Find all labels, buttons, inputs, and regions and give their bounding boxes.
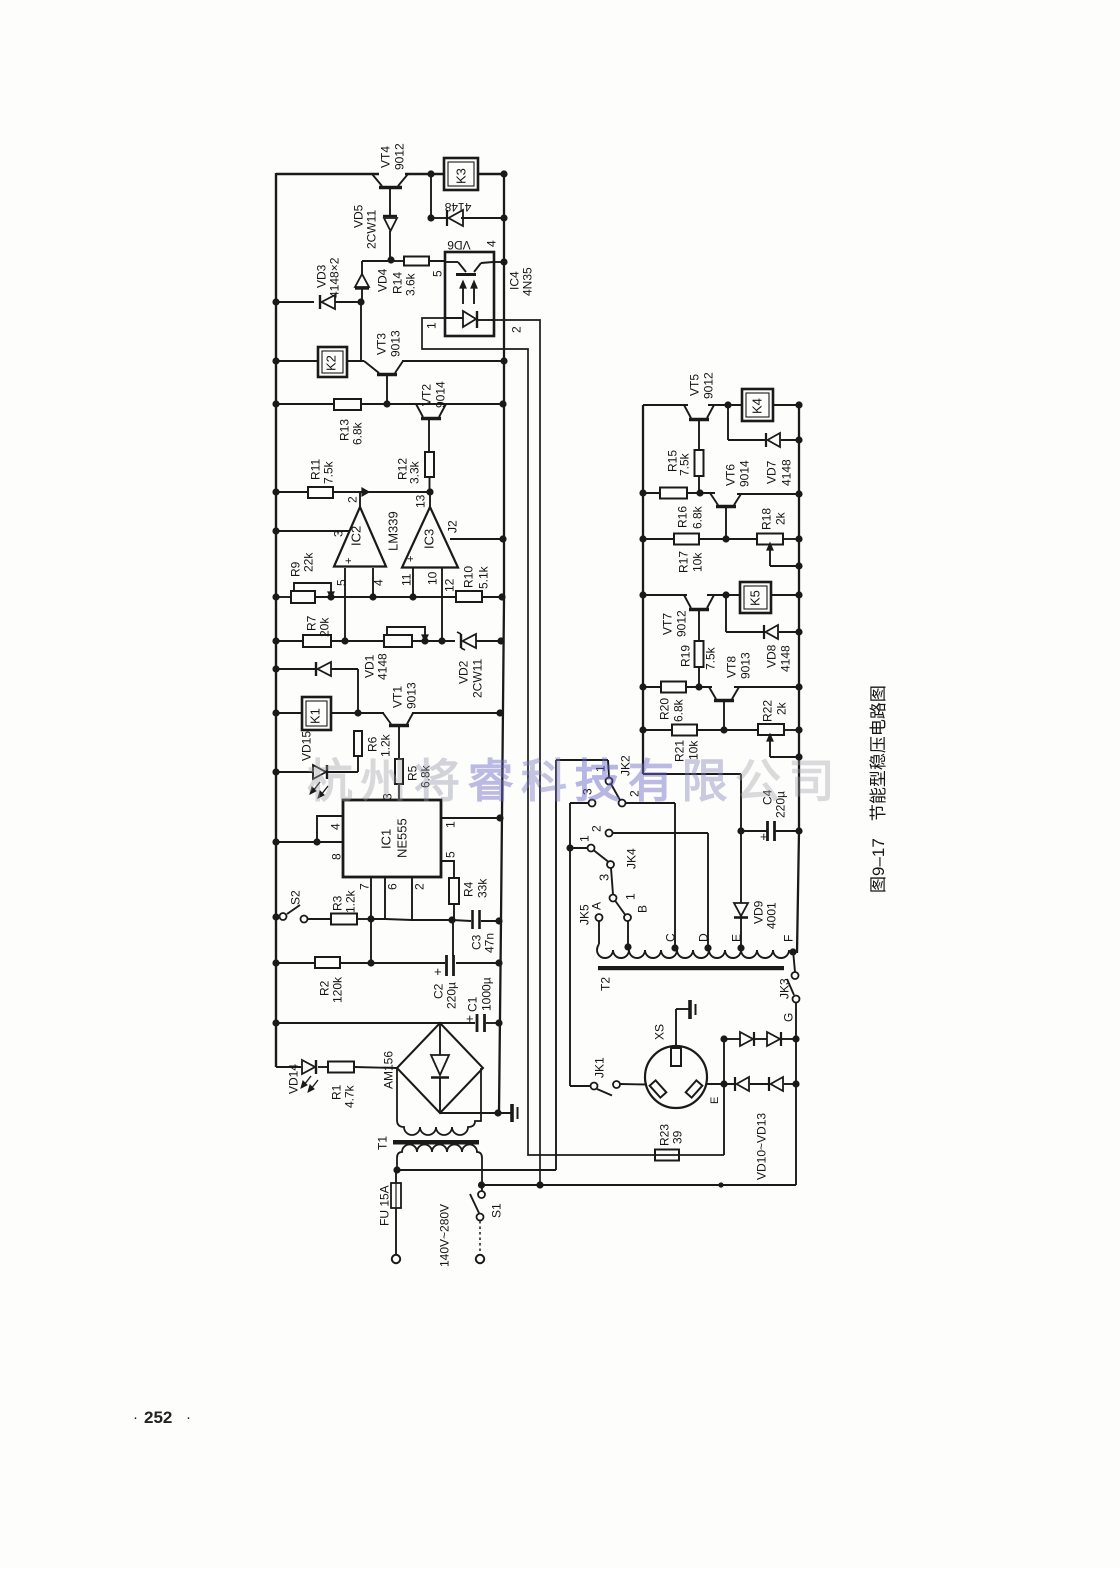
wire IC1 pin6 [371, 877, 399, 919]
resistor R16 [660, 488, 704, 530]
wire IC1 pin8 rail [276, 841, 343, 843]
svg-text:1: 1 [623, 893, 637, 900]
label R9 22k [288, 552, 315, 577]
diode VD12 [735, 1077, 749, 1091]
svg-text:39: 39 [670, 1130, 684, 1144]
node IC4 pin4 [500, 258, 507, 265]
node R9 left [272, 593, 279, 600]
svg-text:R6: R6 [365, 736, 379, 752]
label JK3 [777, 978, 791, 999]
label VT8 [724, 652, 752, 679]
transistor VT7 [684, 595, 714, 641]
svg-text:2: 2 [412, 883, 426, 890]
wire R13 rail [276, 403, 504, 405]
node K1 right end [496, 709, 503, 716]
svg-text:R1: R1 [329, 1084, 343, 1100]
wire R20 rail [643, 686, 799, 688]
diode VD10 [740, 1032, 754, 1046]
svg-text:VT8: VT8 [724, 656, 738, 678]
svg-text:IC2: IC2 [349, 526, 364, 546]
watermark [307, 755, 835, 807]
node VT7-K5 [722, 591, 729, 598]
node JK4-1 join [566, 844, 573, 851]
wire pin7 drop [370, 919, 372, 963]
node pin8 left [272, 838, 279, 845]
svg-text:9012: 9012 [701, 372, 715, 399]
svg-text:R13: R13 [337, 419, 351, 441]
svg-text:IC1: IC1 [379, 829, 394, 849]
node R19 bottom [695, 683, 702, 690]
svg-text:IC3: IC3 [422, 529, 437, 549]
page number [133, 1408, 191, 1427]
switch JK2 [570, 760, 626, 807]
label socket pin [709, 1097, 721, 1104]
pin 1 of JK2 [593, 765, 607, 772]
wire lower diode row [706, 1083, 796, 1085]
pin 3 of JK2 [580, 788, 594, 795]
resistor R19 [678, 641, 717, 687]
node K3 right corner [500, 170, 507, 177]
wire VD7 branch [728, 405, 799, 440]
svg-text:R14: R14 [390, 272, 404, 294]
wire JK2-2 to tap C [626, 803, 676, 948]
node C4 left [737, 827, 744, 834]
wire R7 rail [276, 640, 501, 642]
svg-text:9014: 9014 [433, 381, 447, 408]
terminal mains L [392, 1255, 400, 1263]
svg-text:VT5: VT5 [687, 374, 701, 396]
node S2 left [272, 913, 279, 920]
svg-text:K2: K2 [324, 355, 339, 371]
node S1 top [478, 1181, 485, 1188]
label VD14 [286, 1064, 300, 1094]
pin 1 of JK5 [623, 893, 637, 900]
svg-text:R18: R18 [759, 508, 773, 530]
label JK4 [624, 848, 638, 869]
svg-text:R11: R11 [308, 459, 322, 480]
svg-text:4148: 4148 [778, 645, 792, 672]
node T2 tap E [729, 934, 744, 952]
svg-text:VD5: VD5 [351, 204, 365, 228]
svg-text:3: 3 [597, 874, 612, 881]
pin A of JK5 [589, 902, 603, 910]
node pin4 join [313, 838, 320, 845]
svg-text:4148: 4148 [779, 459, 793, 486]
bridge rectifier AM156 [381, 1023, 483, 1113]
wire IC3 pin10 [425, 568, 442, 641]
node VD7 right [795, 436, 802, 443]
svg-text:220µ: 220µ [444, 982, 458, 1009]
svg-text:VD7: VD7 [764, 460, 778, 484]
svg-text:·: · [186, 1409, 191, 1426]
svg-text:睿: 睿 [468, 755, 515, 807]
node C1 left [272, 1019, 279, 1026]
svg-text:4.7k: 4.7k [342, 1084, 356, 1108]
diode VD1 [316, 662, 331, 676]
wire R21 rail [643, 729, 799, 731]
node upper row left [720, 1035, 727, 1042]
svg-text:VD4: VD4 [375, 268, 389, 292]
svg-text:6.8k: 6.8k [671, 698, 685, 722]
pin 1 of JK4 [577, 835, 591, 842]
node VD1 left [272, 665, 279, 672]
svg-text:7: 7 [357, 883, 371, 890]
svg-text:B: B [635, 905, 649, 913]
svg-text:F: F [781, 935, 795, 942]
svg-text:IC4: IC4 [507, 271, 521, 290]
svg-text:3: 3 [331, 530, 345, 537]
label VD5 2CW11 [351, 204, 378, 249]
svg-text:10k: 10k [690, 552, 704, 572]
wire IC1 pin7 [357, 877, 371, 919]
pin 8 of IC1 [329, 853, 343, 860]
svg-text:1.2k: 1.2k [343, 889, 357, 913]
node R17 left [639, 535, 646, 542]
resistor R20 [657, 682, 686, 723]
svg-text:1.2k: 1.2k [378, 733, 392, 757]
capacitor C1 [465, 977, 493, 1032]
wire pin2 long link [494, 320, 540, 1185]
node VD6 left [427, 214, 434, 221]
svg-text:科: 科 [521, 755, 567, 807]
resistor R4 [449, 878, 489, 920]
svg-text:技: 技 [575, 755, 621, 807]
transistor VT4 [372, 174, 408, 216]
node R13 rail right [499, 400, 506, 407]
IC NE555 IC1 [343, 800, 441, 877]
zener VD2 [457, 632, 479, 650]
wire IC2 pin3 rail [272, 527, 349, 534]
svg-text:2CW11: 2CW11 [470, 659, 484, 698]
svg-text:+: + [466, 1011, 474, 1026]
svg-text:R16: R16 [675, 506, 689, 528]
socket XS [645, 1046, 707, 1108]
transistor VT2 [416, 404, 446, 452]
node pin1 right [496, 814, 503, 821]
svg-text:13: 13 [413, 494, 427, 508]
wire right top rail [643, 404, 799, 406]
svg-text:R7: R7 [304, 615, 318, 631]
wire R9 rail [276, 596, 502, 598]
pin 2 of IC4 [509, 326, 523, 333]
label VD4 [375, 268, 389, 292]
node R18 wiper right [795, 562, 802, 569]
svg-text:R19: R19 [678, 645, 692, 667]
svg-text:+: + [405, 556, 417, 562]
svg-text:9012: 9012 [674, 610, 688, 637]
svg-text:VT7: VT7 [660, 613, 674, 635]
resistor R14 [391, 257, 446, 266]
svg-text:T1: T1 [375, 1136, 389, 1150]
svg-text:R22: R22 [760, 700, 774, 722]
node R21 left [639, 726, 646, 733]
fuse FU [391, 1170, 401, 1255]
resistor R2 [315, 957, 344, 1003]
switch JK1 [570, 1081, 647, 1096]
svg-text:VD10~VD13: VD10~VD13 [754, 1113, 768, 1180]
node bottom bus x540 [536, 1181, 543, 1188]
resistor R3 [308, 889, 371, 924]
node R7 left [272, 637, 279, 644]
label IC4 4N35 [507, 267, 534, 296]
node K4 right [795, 401, 802, 408]
svg-text:限: 限 [682, 755, 728, 807]
label JK1 [592, 1057, 606, 1078]
node VD3 left [272, 298, 279, 305]
svg-text:2k: 2k [773, 511, 787, 525]
pin 2 of IC2 [345, 496, 359, 503]
label T1 [375, 1136, 389, 1150]
wire diode rows link [723, 1039, 725, 1084]
node R12 bottom [426, 488, 433, 495]
svg-text:252: 252 [144, 1408, 172, 1427]
label JK5 [577, 904, 591, 925]
node G label [781, 1013, 795, 1022]
svg-text:9013: 9013 [388, 330, 402, 357]
wire IC2 pin5 [334, 568, 348, 641]
node R22 right [795, 726, 802, 733]
wire C4 feed [643, 774, 741, 903]
wire IC1 pin1 [441, 818, 500, 828]
diode VD9 [734, 903, 748, 948]
ground [512, 1104, 518, 1122]
IC4 LED [446, 311, 493, 328]
potentiometer R8 [384, 627, 428, 647]
ground XS [690, 1000, 696, 1019]
svg-text:VT6: VT6 [723, 464, 737, 486]
optocoupler IC4 box [445, 252, 494, 336]
label J2 [445, 520, 459, 533]
node VD3 junction [357, 298, 364, 305]
caption figure title [869, 685, 888, 893]
wire left supply bus [275, 173, 277, 1067]
resistor R11 [308, 459, 335, 498]
label T2 [598, 977, 612, 991]
node C3 right [495, 917, 502, 924]
svg-text:4001: 4001 [764, 902, 778, 929]
label VT6 [723, 460, 751, 487]
node R20 rail right [795, 683, 802, 690]
svg-text:JK1: JK1 [592, 1057, 606, 1078]
pin 2 of JK4 [589, 825, 603, 832]
svg-text:2: 2 [589, 825, 603, 832]
label VT5 [687, 372, 715, 399]
label VT1 [390, 682, 418, 709]
node VD5-R14 junction [387, 256, 394, 263]
label VT2 [419, 381, 447, 408]
node bridge bottom join [494, 1109, 501, 1116]
node R9 wiper [327, 593, 334, 600]
label FU 15A [377, 1185, 391, 1226]
svg-text:VD8: VD8 [764, 644, 778, 668]
capacitor C4 [741, 789, 799, 844]
label R14 3.6k [390, 272, 417, 296]
wire top rail [276, 173, 504, 175]
node lower row right [792, 1080, 799, 1087]
svg-text:R3: R3 [330, 895, 344, 911]
op-amp IC3 [402, 507, 458, 568]
svg-text:JK4: JK4 [624, 848, 638, 869]
pin 3 of JK4 [597, 874, 612, 881]
diode VD4 [355, 261, 391, 302]
svg-text:11: 11 [399, 573, 413, 586]
svg-text:R2: R2 [317, 980, 331, 996]
svg-text:AM156: AM156 [381, 1051, 395, 1089]
node VD2 right [497, 637, 504, 644]
svg-text:图9–17 节能型稳压电路图: 图9–17 节能型稳压电路图 [869, 685, 888, 893]
node R10 right [498, 593, 505, 600]
wire K1 rail [276, 712, 500, 714]
wire right left bus [642, 405, 644, 774]
wire IC2 output [360, 488, 369, 507]
node R2 left [272, 959, 279, 966]
relay K3 [444, 158, 478, 190]
wire R22 wiper [767, 734, 799, 757]
svg-text:D: D [696, 933, 710, 942]
wire C1 rail [276, 1022, 499, 1024]
svg-text:K5: K5 [748, 590, 763, 606]
svg-text:E: E [729, 934, 743, 942]
svg-text:C1: C1 [465, 996, 479, 1012]
LED VD15 [310, 765, 328, 798]
wire bridge to ground [440, 1112, 512, 1114]
transformer T1 secondary [397, 1068, 481, 1135]
svg-text:S2: S2 [288, 890, 302, 905]
wire IC1 pin4 [317, 816, 343, 842]
pin B of JK5 [635, 905, 649, 913]
node R4 bottom [448, 916, 455, 923]
node pin5 join [341, 637, 348, 644]
node VT7 left [639, 591, 646, 598]
node VT3 base [383, 400, 390, 407]
svg-text:1: 1 [443, 821, 457, 828]
resistor R12 [395, 452, 434, 492]
switch S2 [276, 890, 308, 923]
wire C2 drop [452, 920, 454, 956]
transformer T1 primary [397, 1145, 482, 1192]
svg-text:3.6k: 3.6k [403, 272, 417, 296]
potentiometer R9 [291, 583, 334, 603]
pin 3 of IC2 [331, 530, 345, 537]
wire JK2-1 long link [556, 760, 608, 1170]
label VD6 4148 [444, 200, 471, 252]
node top-rail junction [427, 170, 434, 177]
resistor R21 [672, 725, 700, 763]
svg-text:杭: 杭 [307, 755, 353, 807]
switch JK4 [570, 830, 614, 869]
svg-text:7.5k: 7.5k [321, 460, 335, 484]
svg-text:1: 1 [577, 835, 591, 842]
svg-text:6: 6 [385, 883, 399, 890]
node VD15 left [272, 768, 279, 775]
svg-text:公: 公 [735, 755, 781, 807]
svg-text:3.3k: 3.3k [407, 460, 421, 484]
IC4 light arrows [460, 281, 477, 304]
wire VD1 rail [276, 669, 358, 713]
svg-text:FU 15A: FU 15A [377, 1185, 391, 1226]
resistor R13 [334, 399, 364, 445]
label VT3 [374, 330, 402, 357]
svg-text:VT2: VT2 [419, 384, 433, 406]
label VD3 4148x2 [314, 257, 341, 298]
node pin11 join [409, 593, 416, 600]
diode VD11 [767, 1032, 781, 1046]
label LM339 [386, 511, 401, 551]
wire upper diode row [724, 1038, 796, 1040]
svg-text:140V~280V: 140V~280V [437, 1204, 451, 1267]
wire R16 rail [643, 493, 799, 494]
svg-text:州: 州 [361, 755, 407, 807]
node VD6 right [500, 214, 507, 221]
svg-text:5.1k: 5.1k [476, 565, 490, 589]
resistor R18 [757, 508, 787, 545]
wire R11 rail [276, 491, 430, 493]
svg-text:E: E [709, 1097, 721, 1104]
svg-text:33k: 33k [475, 878, 489, 898]
svg-text:VD9: VD9 [751, 900, 765, 924]
node K2 rail right end [500, 357, 507, 364]
label VD1 4148 [362, 653, 389, 680]
svg-text:5: 5 [443, 851, 457, 858]
wire R17 rail [643, 538, 799, 540]
wire VD8 branch [726, 595, 799, 632]
svg-text:120k: 120k [330, 976, 344, 1003]
label VT4 [378, 143, 406, 170]
svg-text:K1: K1 [308, 708, 323, 724]
svg-text:6.8k: 6.8k [350, 421, 364, 445]
wire IC1 pin5 [441, 851, 457, 878]
resistor R17 [674, 534, 704, 574]
svg-text:R20: R20 [657, 698, 671, 720]
node pin4 join [369, 593, 376, 600]
svg-text:1: 1 [424, 322, 438, 329]
svg-text:+: + [343, 558, 355, 564]
svg-text:4: 4 [371, 579, 385, 586]
resistor R15 [665, 450, 703, 493]
svg-text:2: 2 [509, 326, 523, 333]
node R2 rail join [367, 959, 374, 966]
transistor VT6 [710, 493, 741, 539]
relay K2 [318, 347, 347, 377]
zener VD5 [383, 216, 397, 260]
node T2 tap C [663, 933, 678, 952]
svg-text:LM339: LM339 [386, 511, 401, 551]
svg-text:9013: 9013 [404, 682, 418, 709]
transformer T2 core [598, 966, 784, 970]
node R11 left [272, 488, 279, 495]
svg-text:2k: 2k [774, 701, 788, 715]
node fuse top [393, 1166, 400, 1173]
svg-text:4148×2: 4148×2 [327, 257, 341, 298]
svg-text:R4: R4 [461, 881, 475, 897]
wire R18 wiper [767, 543, 799, 566]
wire XS earth [676, 1009, 690, 1048]
label JK2 [618, 755, 632, 776]
wire VD6 branch [431, 174, 504, 218]
node T2 tap F [781, 935, 796, 956]
svg-text:VD1: VD1 [362, 654, 376, 678]
svg-text:C2: C2 [431, 983, 445, 999]
wire IC3 pin11 [399, 568, 413, 597]
node K2 rail left [272, 357, 279, 364]
resistor R6 [354, 731, 392, 772]
switch JK3 [787, 950, 800, 1185]
svg-text:7.5k: 7.5k [703, 646, 717, 670]
transformer T2 winding [597, 944, 789, 958]
wire pin1 long link [422, 318, 724, 1155]
svg-text:S1: S1 [489, 1203, 503, 1218]
svg-text:VT3: VT3 [374, 333, 388, 355]
